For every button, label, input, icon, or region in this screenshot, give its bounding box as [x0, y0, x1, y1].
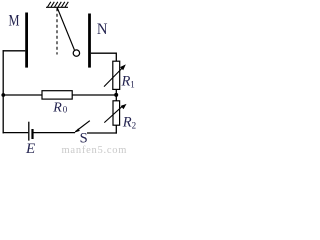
- wire R1 to junction to R2: [115, 89, 117, 101]
- wire from plate M to left rail: [3, 50, 26, 52]
- svg-text:E: E: [25, 141, 35, 155]
- wire bottom rail right segment: [87, 132, 117, 134]
- svg-text:manfen5.com: manfen5.com: [62, 145, 128, 155]
- svg-text:M: M: [9, 13, 20, 30]
- plate N: [88, 14, 91, 68]
- svg-text:R: R: [122, 115, 132, 131]
- ceiling: [46, 2, 68, 8]
- svg-text:0: 0: [63, 105, 68, 115]
- svg-text:2: 2: [132, 121, 137, 131]
- rheostat R2: [113, 101, 120, 125]
- resistor R0: [42, 91, 72, 99]
- wire left rail: [2, 50, 4, 133]
- svg-text:1: 1: [130, 80, 135, 90]
- wire R0 to right junction: [72, 94, 116, 96]
- node junction right: [114, 93, 118, 97]
- wire middle left to R0: [3, 94, 42, 96]
- node junction left: [1, 93, 5, 97]
- pendulum string: [57, 8, 74, 50]
- wire bottom rail left segment: [3, 132, 29, 134]
- svg-text:N: N: [97, 21, 108, 38]
- equilibrium dashed line: [56, 8, 58, 54]
- rheostat R1: [113, 61, 120, 89]
- rheostat R2 arrow: [104, 104, 126, 123]
- pendulum ball: [73, 50, 79, 56]
- battery E: [29, 122, 33, 141]
- wire R2 to bottom rail: [115, 125, 117, 134]
- wire battery to switch: [34, 132, 76, 134]
- rheostat R1 arrow: [104, 64, 126, 86]
- plate M: [25, 13, 28, 68]
- svg-text:R: R: [52, 101, 62, 116]
- wire from plate N to R1: [91, 53, 116, 61]
- svg-text:R: R: [121, 74, 131, 90]
- switch S: [74, 121, 89, 133]
